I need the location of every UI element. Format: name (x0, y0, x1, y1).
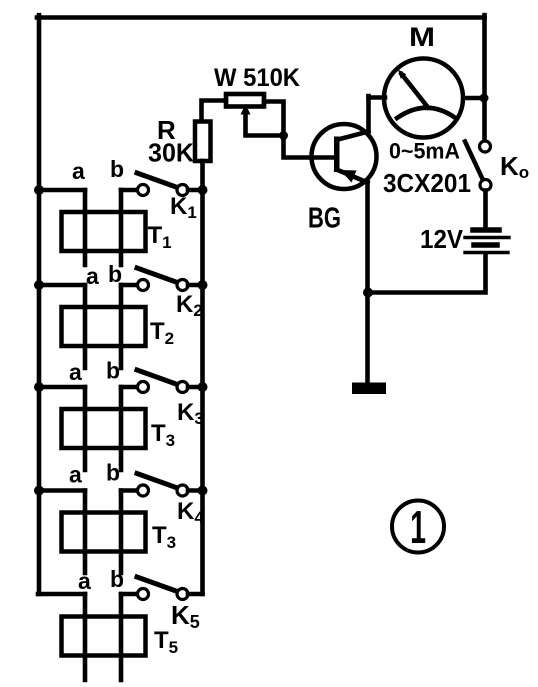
transformer T2 body (62, 307, 146, 346)
resistor R body (195, 122, 211, 162)
wire: top supply rail (37, 15, 485, 20)
wire: T1 winding a (83, 190, 88, 265)
transistor collector lead inside (338, 132, 369, 140)
wire: T1 winding b (119, 190, 124, 265)
switch K5 blade (137, 577, 178, 592)
switch K5 left contact (138, 589, 149, 600)
svg-text:b: b (110, 566, 124, 592)
wire: row1 b to switch (121, 188, 138, 193)
svg-text:b: b (106, 358, 120, 384)
node: meter-right junction (480, 94, 489, 103)
svg-text:a: a (78, 568, 91, 594)
svg-text:0~5mA: 0~5mA (389, 139, 460, 164)
meter needle (398, 70, 428, 108)
svg-text:BG: BG (308, 203, 341, 235)
potentiometer W body (226, 94, 264, 107)
switch K2 left contact (138, 280, 149, 291)
svg-text:a: a (72, 158, 85, 184)
meter scale arc (397, 108, 454, 118)
meter M body (384, 59, 463, 138)
switch K4 blade (137, 474, 178, 489)
transformer T1 body (62, 212, 146, 251)
switch K1 right contact (177, 185, 188, 196)
node: bus junction row3 left (34, 382, 44, 392)
switch K3 left contact (138, 382, 149, 393)
wire: T2 winding b (119, 285, 124, 368)
wire: emitter vertical to ground (365, 181, 370, 383)
wire: left vertical bus (37, 15, 42, 594)
ground symbol (352, 383, 386, 395)
transformer T3 body (62, 409, 146, 448)
pot wiper arrow (241, 104, 284, 136)
transistor emitter lead (337, 170, 368, 183)
wire: row1 horizontal a-tap (38, 188, 85, 193)
wire: row5 horizontal a-tap (38, 592, 85, 597)
svg-text:3CX201: 3CX201 (383, 168, 471, 198)
node: bus junction row2 left (34, 280, 44, 290)
wire: row3 b to switch (121, 385, 138, 390)
switch K4 left contact (138, 485, 149, 496)
svg-text:a: a (69, 359, 82, 385)
wire: T5 winding a (83, 594, 88, 680)
switch K4 right contact (177, 485, 188, 496)
wire: battery bottom to ground rail (368, 255, 486, 293)
wire: T5 winding b (119, 594, 124, 680)
node: wiper junction (279, 131, 288, 140)
svg-text:W 510K: W 510K (214, 64, 300, 92)
wire: K1 to bus (188, 188, 203, 193)
switch K5 right contact (177, 589, 188, 600)
wire: right vertical bus top section (482, 15, 487, 141)
wire: K switch bus vertical (200, 190, 205, 594)
wire: junction to transistor base (284, 136, 335, 158)
switch K2 right contact (177, 280, 188, 291)
wire: K5 to bus (188, 592, 203, 597)
wire: T4 winding b (119, 491, 124, 574)
wire: K3 to bus (188, 385, 203, 390)
switch K1 blade (137, 173, 178, 188)
switch K2 blade (137, 268, 178, 283)
wire: row3 horizontal a-tap (38, 385, 85, 390)
wire: T3 winding a (83, 387, 88, 470)
transistor base bar (334, 137, 340, 173)
wire: K2 to bus (188, 283, 203, 288)
node: K-bus junction row2 (198, 280, 208, 290)
svg-text:30K: 30K (148, 138, 194, 168)
svg-text:12V: 12V (420, 224, 464, 254)
svg-text:a: a (69, 462, 82, 488)
wire: K0 to battery (483, 191, 488, 228)
node: K-bus junction row4 (198, 486, 208, 496)
transformer T4 body (62, 513, 146, 552)
transistor BG body circle (312, 124, 377, 189)
wire: row4 b to switch (121, 488, 138, 493)
wire: T3 winding b (119, 387, 124, 470)
svg-text:b: b (108, 261, 122, 287)
wire: R bottom lead (200, 161, 205, 190)
figure number 1 circled (392, 501, 444, 554)
node: K-bus junction row1 (198, 185, 208, 195)
switch K0 blade (465, 142, 483, 181)
wire: T4 winding a (83, 491, 88, 574)
svg-text:M: M (409, 22, 435, 52)
svg-text:b: b (106, 460, 120, 486)
svg-text:1: 1 (410, 502, 426, 554)
wire: meter left lead (369, 95, 386, 100)
node: emitter/ground junction (363, 288, 373, 298)
transformer T5 body (62, 617, 146, 656)
wire: row2 b to switch (121, 283, 138, 288)
wire: meter right lead (461, 96, 485, 101)
switch K0 bottom contact (480, 180, 491, 191)
wire: row5 b to switch (121, 592, 138, 597)
wire: T2 winding a (83, 285, 88, 368)
wire: row4 horizontal a-tap (38, 488, 85, 493)
wire: pot left lead to R top (202, 101, 227, 122)
svg-text:b: b (110, 156, 124, 182)
battery 12V plates (465, 230, 509, 253)
wire: pot right lead down (264, 102, 284, 136)
svg-text:a: a (86, 263, 99, 289)
node: bus junction row1 left (34, 185, 44, 195)
switch K0 top contact (480, 141, 491, 152)
node: bus junction row4 left (34, 486, 44, 496)
wire: K4 to bus (188, 488, 203, 493)
node: K-bus junction row3 (198, 382, 208, 392)
switch K3 right contact (177, 382, 188, 393)
wire: row2 horizontal a-tap (38, 283, 85, 288)
transistor emitter arrow (340, 170, 357, 183)
wire: collector to meter (337, 96, 369, 140)
switch K1 left contact (138, 185, 149, 196)
switch K3 blade (137, 370, 178, 385)
